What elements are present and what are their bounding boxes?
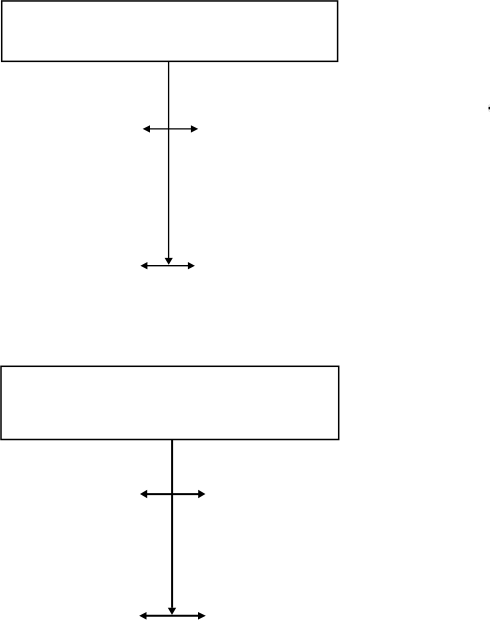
arrowhead: down arrow at end of box 2 vertical line — [168, 608, 176, 615]
mark at right edge — [488, 105, 490, 112]
box 1 — [2, 1, 338, 61]
arrow: lower horizontal double-headed arrow (group 1) — [140, 262, 195, 269]
arrow: upper horizontal double-headed arrow (group 2) — [140, 490, 205, 498]
arrow: upper horizontal double-headed arrow (group 1) — [143, 125, 199, 132]
wire: vertical line from box 1 — [168, 61, 170, 258]
box 2 — [1, 366, 339, 439]
arrow: lower horizontal double-headed arrow (group 2) — [139, 612, 206, 620]
wire: vertical line from box 2 — [171, 440, 173, 608]
arrowhead: down arrow at end of box 1 vertical line — [165, 258, 173, 265]
